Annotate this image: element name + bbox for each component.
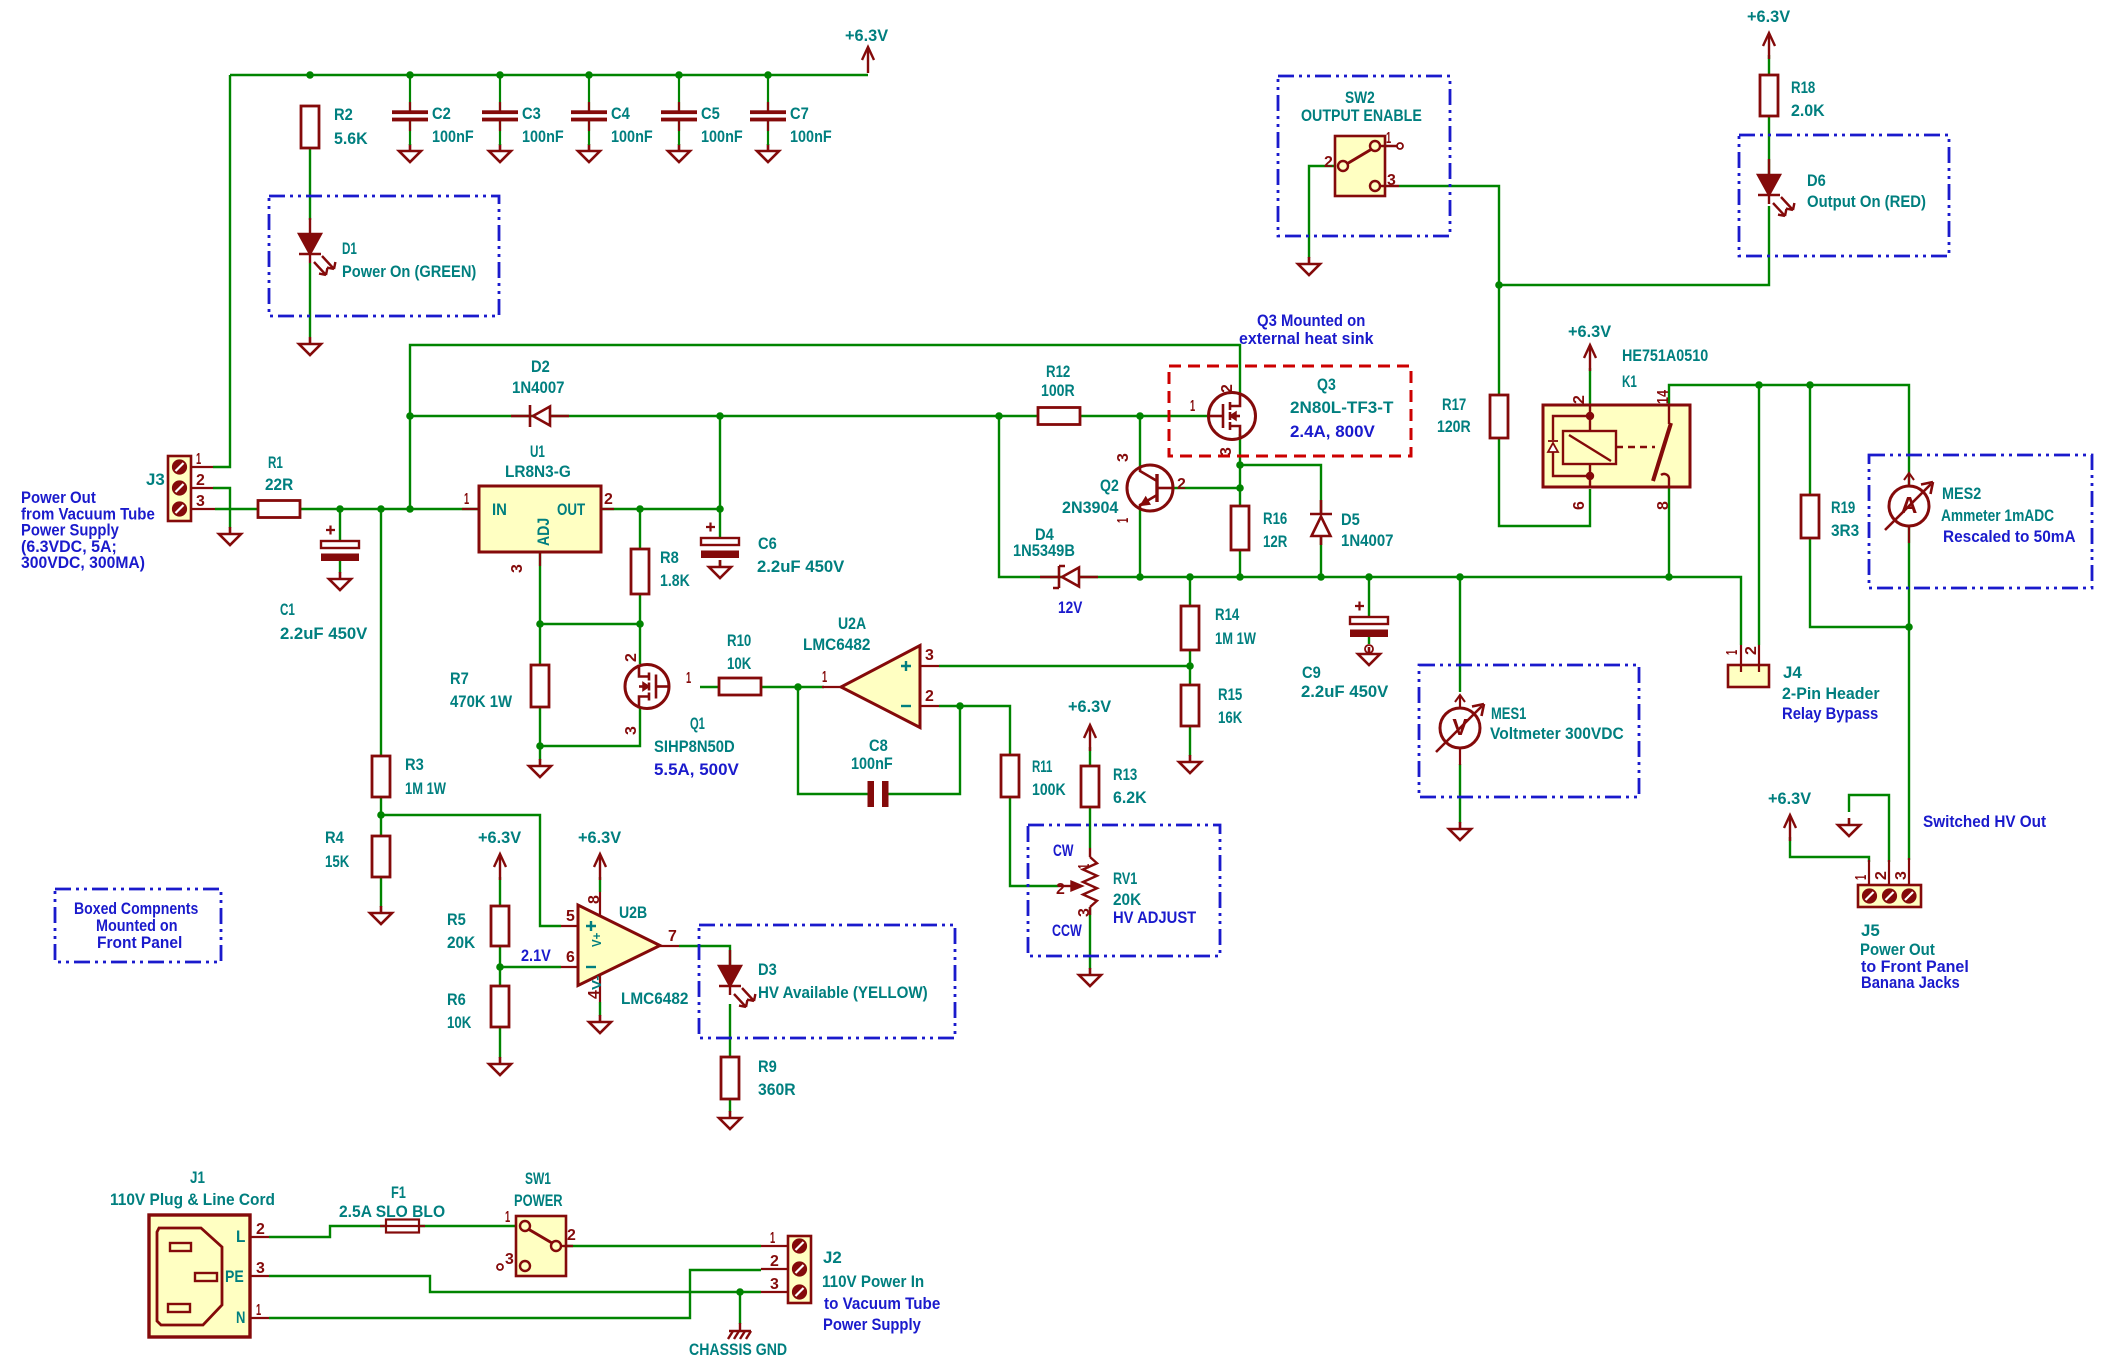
svg-text:3: 3 (1115, 453, 1132, 462)
junction (306, 71, 314, 79)
svg-text:R7: R7 (450, 669, 469, 688)
svg-text:PE: PE (225, 1267, 244, 1286)
svg-text:CW: CW (1053, 841, 1074, 860)
svg-text:16K: 16K (1218, 708, 1243, 727)
svg-text:C9: C9 (1302, 663, 1321, 682)
svg-text:2: 2 (925, 688, 934, 705)
svg-text:100nF: 100nF (701, 127, 743, 146)
svg-text:1: 1 (256, 1302, 261, 1319)
connector J5 (1858, 858, 1921, 907)
svg-text:HE751A0510: HE751A0510 (1622, 346, 1708, 365)
junction (1136, 412, 1144, 420)
junction (1495, 281, 1503, 289)
svg-text:2: 2 (1219, 384, 1236, 393)
svg-text:R18: R18 (1791, 78, 1815, 97)
resistor R4 (372, 836, 390, 877)
wire Q2 emitter to HV line (1139, 509, 1141, 577)
wire D1 to ground (309, 263, 311, 337)
svg-text:HV Available (YELLOW): HV Available (YELLOW) (758, 983, 928, 1002)
wire +6.3V to R13 to RV1 (1089, 747, 1091, 848)
svg-text:R10: R10 (727, 631, 751, 650)
wire R2 to D1 (309, 148, 311, 220)
power flag +6.3V power (494, 854, 506, 880)
junction (496, 963, 504, 971)
svg-text:V-: V- (589, 976, 604, 990)
heat sink box Q3 (1169, 366, 1411, 456)
wire U2A- to R11 to RV1 wiper (960, 706, 1058, 886)
ground (529, 759, 551, 777)
front panel box D1 (269, 196, 499, 316)
svg-text:R15: R15 (1218, 685, 1242, 704)
wire MES2 down to J5 pin3 (1908, 524, 1910, 860)
capacitor C8 (869, 782, 888, 806)
svg-text:1: 1 (822, 669, 827, 686)
svg-text:Q2: Q2 (1100, 476, 1119, 495)
svg-text:1: 1 (464, 491, 469, 508)
op-amp U2A LMC6482 (output left) (841, 646, 920, 728)
connector J4 (1728, 645, 1769, 687)
svg-text:Front Panel: Front Panel (97, 933, 182, 952)
wire J3 pin1 to rail (213, 75, 230, 467)
chassis ground (728, 1323, 751, 1339)
svg-text:1: 1 (1853, 875, 1870, 880)
svg-text:R16: R16 (1263, 509, 1287, 528)
wire to J4 pin2 (1758, 385, 1760, 645)
wire Q1 source to ground node (540, 708, 640, 760)
junction (1236, 461, 1244, 469)
svg-text:100nF: 100nF (432, 127, 474, 146)
wire Q2 base to R16 node (1173, 487, 1240, 489)
junction (636, 505, 644, 513)
junction (406, 71, 414, 79)
junction (1186, 662, 1194, 670)
svg-text:2: 2 (770, 1253, 779, 1270)
power flag +6.3V power (1084, 725, 1096, 751)
svg-text:HV ADJUST: HV ADJUST (1113, 908, 1197, 927)
wire feedback to C8 left (798, 687, 869, 794)
svg-text:1N4007: 1N4007 (1341, 531, 1394, 550)
svg-text:2-Pin Header: 2-Pin Header (1782, 684, 1880, 703)
svg-text:U2B: U2B (619, 903, 647, 922)
svg-text:C6: C6 (758, 534, 777, 553)
svg-text:20K: 20K (1113, 890, 1142, 909)
potentiometer RV1 (1058, 848, 1097, 915)
capacitor C3 (482, 75, 518, 145)
front panel box MES1 (1419, 665, 1639, 797)
junction (1236, 484, 1244, 492)
svg-text:Q3: Q3 (1317, 375, 1336, 394)
svg-text:2.5A SLO BLO: 2.5A SLO BLO (339, 1202, 445, 1221)
svg-text:2: 2 (256, 1221, 265, 1238)
svg-text:100nF: 100nF (790, 127, 832, 146)
ground (489, 1057, 511, 1075)
connector J2 (761, 1236, 811, 1303)
meter MES2 (1885, 473, 1933, 543)
svg-text:C2: C2 (432, 104, 451, 123)
svg-text:R9: R9 (758, 1057, 777, 1076)
svg-text:R8: R8 (660, 548, 679, 567)
capacitor C4 (571, 75, 607, 145)
svg-text:120R: 120R (1437, 417, 1471, 436)
wire to C1 top (339, 509, 341, 541)
resistor R11 (1001, 755, 1019, 797)
ground (399, 144, 421, 162)
svg-text:R1: R1 (268, 453, 283, 472)
svg-text:100nF: 100nF (522, 127, 564, 146)
svg-text:V: V (1452, 714, 1468, 740)
junction (1186, 573, 1194, 581)
junction (1755, 381, 1763, 389)
svg-text:20K: 20K (447, 933, 476, 952)
transistor Q2 2N3904 (NPN, mirrored) (1127, 465, 1173, 511)
wire J1 N to J2 pin2 (269, 1270, 761, 1318)
wire J3 pin2 to ground (213, 488, 230, 528)
svg-text:Q3 Mounted on: Q3 Mounted on (1257, 311, 1365, 330)
wire R10 to U2A output (761, 686, 824, 688)
svg-text:2: 2 (1324, 154, 1333, 171)
ground (1179, 755, 1201, 773)
svg-text:R12: R12 (1046, 362, 1070, 381)
svg-text:R11: R11 (1032, 757, 1052, 776)
ground (668, 144, 690, 162)
svg-text:SW1: SW1 (525, 1169, 551, 1188)
svg-text:C3: C3 (522, 104, 541, 123)
svg-text:2: 2 (567, 1227, 576, 1244)
svg-text:A: A (1901, 492, 1918, 518)
svg-text:MES2: MES2 (1942, 484, 1981, 503)
junction (1136, 573, 1144, 581)
svg-text:D1: D1 (342, 239, 357, 258)
wire HV to MES1 (1459, 577, 1461, 692)
svg-text:U1: U1 (530, 442, 545, 461)
wire C8 right to U2A inverting input (887, 706, 960, 794)
switch SW1 POWER (497, 1216, 573, 1276)
wire U2B V+ pin (599, 877, 601, 892)
wire to Q1 drain (639, 624, 641, 664)
connector J1 110V plug (149, 1215, 269, 1337)
front panel box MES2 (1869, 455, 2092, 588)
svg-text:Rescaled to 50mA: Rescaled to 50mA (1943, 527, 2076, 546)
svg-text:1: 1 (770, 1230, 775, 1247)
power flag +6.3V power (594, 854, 606, 880)
svg-text:2: 2 (623, 653, 640, 662)
svg-text:POWER: POWER (514, 1191, 563, 1210)
svg-text:1: 1 (1115, 518, 1132, 523)
svg-text:Switched HV Out: Switched HV Out (1923, 812, 2046, 831)
svg-text:R4: R4 (325, 828, 344, 847)
wire to chassis ground (739, 1292, 741, 1324)
svg-text:3R3: 3R3 (1831, 521, 1859, 540)
junction (406, 412, 414, 420)
junction (536, 620, 544, 628)
svg-text:10K: 10K (447, 1013, 472, 1032)
LED D1 (299, 218, 335, 275)
wire C6 to ground (719, 560, 721, 567)
junction (496, 71, 504, 79)
svg-text:external heat sink: external heat sink (1239, 329, 1374, 348)
svg-text:+6.3V: +6.3V (1768, 789, 1812, 808)
svg-text:5: 5 (566, 908, 575, 925)
svg-text:110V Power In: 110V Power In (822, 1272, 924, 1291)
wire R14 to node (1189, 650, 1191, 666)
resistor R2 (301, 106, 319, 148)
svg-text:6.2K: 6.2K (1113, 788, 1147, 807)
wire relay pin8 to HV line (1668, 487, 1670, 577)
ground (719, 1111, 741, 1129)
svg-text:22R: 22R (265, 475, 293, 494)
wire C6 top lead (719, 509, 721, 538)
ground (329, 572, 351, 590)
wire 2.1V node to U2B pin6 (500, 966, 561, 968)
svg-text:6: 6 (566, 949, 575, 966)
junction (736, 1288, 744, 1296)
transistor Q1 (MOSFET) (625, 665, 669, 709)
junction (794, 683, 802, 691)
capacitor C9 (polarized) (1350, 602, 1388, 638)
svg-text:OUT: OUT (557, 500, 586, 519)
wire HV to C9 (1368, 577, 1370, 617)
capacitor C1 (polarized) (321, 526, 359, 562)
wire U1.ADJ down R7 column (539, 552, 541, 746)
svg-text:IN: IN (492, 500, 507, 519)
diode D5 (1310, 500, 1332, 545)
svg-text:ADJ: ADJ (534, 518, 553, 546)
svg-text:3: 3 (256, 1260, 265, 1277)
svg-text:7: 7 (668, 928, 677, 945)
svg-text:2: 2 (1743, 646, 1760, 655)
wire U2B out to D3 (679, 946, 730, 966)
svg-text:R3: R3 (405, 755, 424, 774)
svg-text:+6.3V: +6.3V (1568, 322, 1612, 341)
wire ADJ row (540, 623, 640, 625)
svg-text:100nF: 100nF (611, 127, 653, 146)
svg-text:SIHP8N50D: SIHP8N50D (654, 737, 735, 756)
resistor R1 (258, 501, 300, 518)
svg-text:CCW: CCW (1052, 921, 1082, 940)
svg-text:J2: J2 (823, 1248, 842, 1267)
junction (1456, 573, 1464, 581)
svg-text:D5: D5 (1341, 510, 1360, 529)
svg-text:8: 8 (586, 895, 603, 904)
svg-text:J5: J5 (1861, 921, 1880, 940)
wire R19 branch (1810, 385, 1909, 627)
svg-text:2.2uF 450V: 2.2uF 450V (757, 557, 845, 576)
svg-text:3: 3 (1076, 908, 1093, 917)
svg-text:D6: D6 (1807, 171, 1826, 190)
svg-text:D2: D2 (531, 357, 550, 376)
wire +6.3V through R18 to D6 (1768, 55, 1770, 177)
svg-text:J1: J1 (190, 1168, 205, 1187)
wire Q1 gate to R10 (700, 686, 719, 688)
wire +6.3V to relay pin2 (1589, 368, 1591, 405)
LED D3 (719, 950, 755, 1007)
front panel box D6 (1739, 135, 1949, 256)
wire SW2 pin2 to ground (1309, 166, 1337, 258)
svg-text:SW2: SW2 (1345, 88, 1375, 107)
svg-text:C4: C4 (611, 104, 630, 123)
svg-text:Ammeter 1mADC: Ammeter 1mADC (1941, 506, 2054, 525)
ground (1449, 822, 1471, 840)
svg-text:3: 3 (196, 493, 205, 510)
svg-text:100R: 100R (1041, 381, 1075, 400)
junction (585, 71, 593, 79)
resistor R16 (1231, 506, 1249, 550)
wire R3 R4 column (380, 509, 382, 907)
wire junction to Q2 collector (1139, 416, 1141, 467)
svg-text:5.5A, 500V: 5.5A, 500V (654, 760, 739, 779)
junction (377, 811, 385, 819)
svg-text:C5: C5 (701, 104, 720, 123)
svg-text:Q1: Q1 (690, 714, 705, 733)
front panel box note box (55, 889, 221, 962)
svg-text:RV1: RV1 (1113, 869, 1137, 888)
wire +6.3V to J5 pin1 (1790, 837, 1869, 862)
resistor R12 (1038, 408, 1080, 425)
svg-text:MES1: MES1 (1491, 704, 1526, 723)
svg-text:2: 2 (196, 472, 205, 489)
svg-text:110V Plug & Line Cord: 110V Plug & Line Cord (110, 1190, 275, 1209)
junction (1806, 381, 1814, 389)
svg-text:1: 1 (1386, 130, 1391, 147)
svg-text:5.6K: 5.6K (334, 129, 368, 148)
svg-text:3: 3 (505, 1251, 514, 1268)
svg-text:4: 4 (586, 990, 603, 999)
svg-text:R13: R13 (1113, 765, 1137, 784)
svg-text:J4: J4 (1783, 663, 1802, 682)
diode D4 (1040, 566, 1098, 588)
wire relay pin14 over to MES2 (1669, 385, 1909, 488)
svg-text:2N80L-TF3-T: 2N80L-TF3-T (1290, 398, 1394, 417)
svg-text:Output On (RED): Output On (RED) (1807, 192, 1926, 211)
wire node to D6 cathode (1499, 206, 1769, 285)
wire SW1 pin2 to J2 pin1 (560, 1245, 761, 1247)
svg-text:CHASSIS GND: CHASSIS GND (689, 1340, 787, 1359)
wire HV to R14 (1189, 577, 1191, 606)
svg-text:Power Supply: Power Supply (823, 1315, 921, 1334)
wire D3 to R9 to ground (729, 1004, 731, 1112)
svg-text:2.0K: 2.0K (1791, 101, 1825, 120)
front panel box RV1 (1028, 825, 1220, 956)
wire R5 R6 column (499, 877, 501, 1058)
junction (675, 71, 683, 79)
svg-text:J3: J3 (146, 470, 165, 489)
svg-text:1.8K: 1.8K (660, 571, 690, 590)
svg-text:LR8N3-G: LR8N3-G (505, 462, 571, 481)
svg-text:2: 2 (1571, 395, 1588, 404)
svg-text:300VDC, 300MA): 300VDC, 300MA) (21, 553, 145, 572)
wire U1.OUT to C6 node (601, 508, 720, 510)
IC U1 LR8N3-G (479, 486, 601, 552)
svg-text:360R: 360R (758, 1080, 796, 1099)
svg-text:2.4A, 800V: 2.4A, 800V (1290, 422, 1375, 441)
junction (406, 505, 414, 513)
resistor R7 (531, 665, 549, 707)
svg-text:C7: C7 (790, 104, 809, 123)
svg-text:3: 3 (509, 564, 526, 573)
capacitor C2 (392, 75, 428, 145)
ground (1298, 257, 1320, 275)
svg-text:+6.3V: +6.3V (1747, 7, 1791, 26)
ground (219, 527, 241, 545)
svg-text:D3: D3 (758, 960, 777, 979)
svg-text:1: 1 (1190, 398, 1195, 415)
svg-text:2.1V: 2.1V (521, 946, 551, 965)
resistor R17 (1490, 395, 1508, 438)
svg-text:R19: R19 (1831, 498, 1855, 517)
wire U2B V- pin (599, 1002, 601, 1016)
capacitor C6 (polarized) (701, 523, 739, 559)
junction (1317, 573, 1325, 581)
LED D6 (1758, 159, 1794, 216)
svg-text:V+: V+ (589, 932, 604, 947)
svg-text:1N5349B: 1N5349B (1013, 541, 1075, 560)
svg-text:12R: 12R (1263, 532, 1287, 551)
svg-text:K1: K1 (1622, 372, 1637, 391)
svg-text:2: 2 (1056, 881, 1065, 898)
svg-text:10K: 10K (727, 654, 752, 673)
ground (1838, 818, 1860, 836)
wire C1 to ground (339, 561, 341, 573)
ground (757, 144, 779, 162)
wire row J3.3-R1-U1.IN (215, 508, 479, 510)
meter MES1 (1436, 695, 1484, 765)
svg-text:1: 1 (505, 1209, 510, 1226)
svg-text:3: 3 (1893, 871, 1910, 880)
svg-text:3: 3 (1387, 172, 1396, 189)
op-amp U2B LMC6482 (output right) (578, 905, 660, 986)
svg-text:1: 1 (1076, 864, 1093, 869)
wire D5 to HV line (1320, 537, 1322, 577)
resistor R6 (491, 986, 509, 1027)
svg-text:3: 3 (770, 1276, 779, 1293)
resistor R14 (1181, 606, 1199, 650)
svg-text:2.2uF 450V: 2.2uF 450V (280, 624, 368, 643)
svg-text:6: 6 (1571, 501, 1588, 510)
resistor R10 (719, 678, 761, 695)
front panel box D3 (699, 925, 955, 1038)
front panel box SW2 (1278, 76, 1450, 236)
diode D2 (511, 405, 569, 427)
ground (1358, 647, 1380, 665)
ground (589, 1015, 611, 1033)
svg-text:C8: C8 (869, 736, 888, 755)
svg-text:2.2uF 450V: 2.2uF 450V (1301, 682, 1389, 701)
svg-text:2: 2 (604, 491, 613, 508)
resistor R18 (1760, 75, 1778, 116)
svg-text:R2: R2 (334, 105, 353, 124)
svg-text:+6.3V: +6.3V (478, 828, 522, 847)
wire ground to J5 pin2 (1849, 795, 1889, 862)
svg-text:LMC6482: LMC6482 (803, 635, 870, 654)
junction (764, 71, 772, 79)
svg-text:1M 1W: 1M 1W (1215, 629, 1257, 648)
wire C6 node to D2 line (719, 416, 721, 509)
svg-text:2: 2 (1177, 476, 1186, 493)
connector J3 (168, 456, 215, 521)
resistor R15 (1181, 685, 1199, 726)
svg-text:3: 3 (925, 647, 934, 664)
wire source node to D5 (1240, 465, 1321, 514)
power flag +6.3V power (1763, 33, 1775, 59)
svg-text:8: 8 (1655, 501, 1672, 510)
svg-text:R17: R17 (1442, 395, 1466, 414)
wire IN node up and over to Q3 drain (410, 345, 1240, 509)
svg-text:Relay Bypass: Relay Bypass (1782, 704, 1878, 723)
wire J1 PE to J2 pin3 (269, 1276, 761, 1292)
svg-text:1: 1 (686, 670, 691, 687)
relay K1 HE751A0510 (1543, 405, 1690, 487)
junction (336, 505, 344, 513)
